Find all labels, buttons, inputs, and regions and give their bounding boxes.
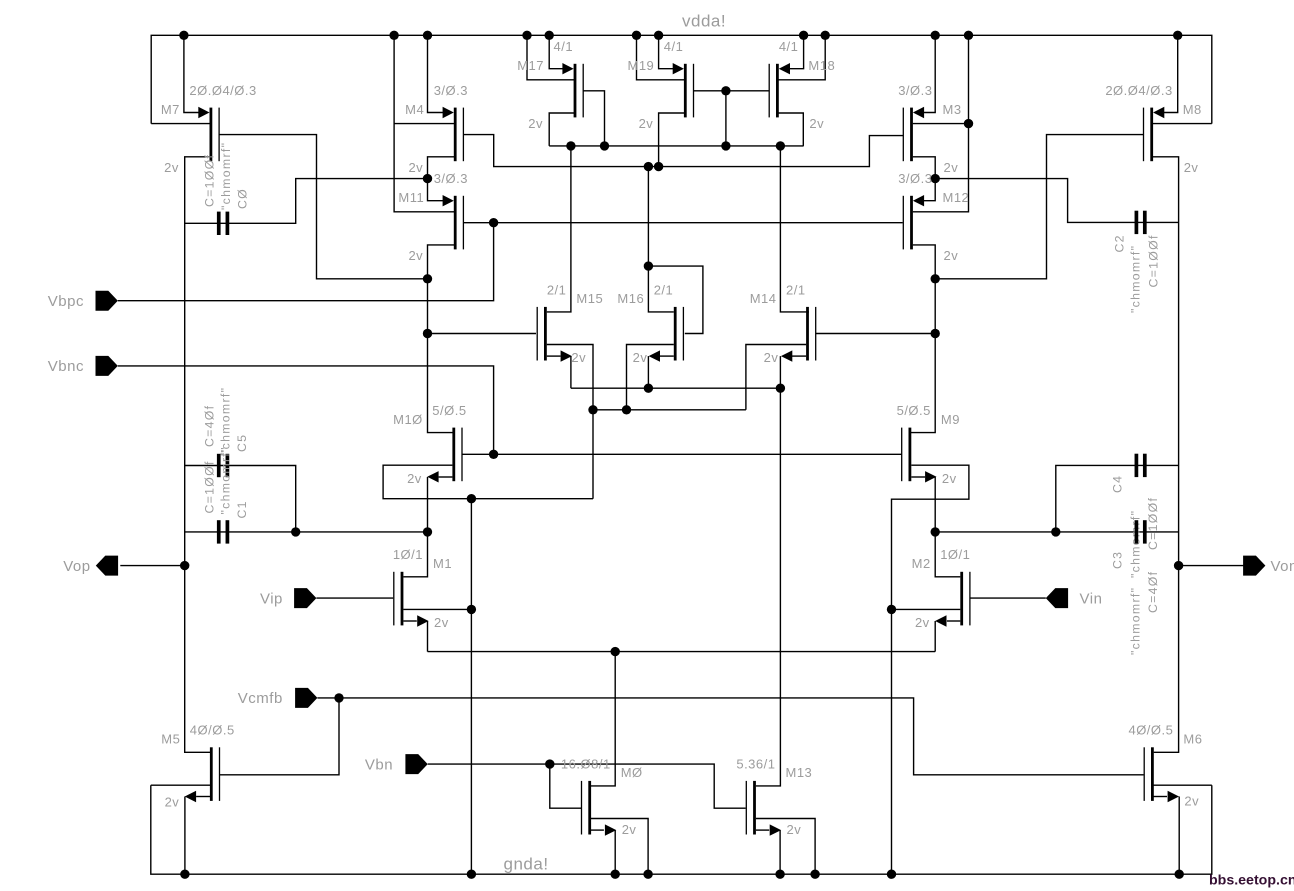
port Von	[1243, 556, 1294, 576]
svg-text:16.Ø8/1: 16.Ø8/1	[561, 756, 611, 771]
svg-text:4Ø/Ø.5: 4Ø/Ø.5	[190, 723, 235, 738]
wire M4 source stub	[428, 35, 444, 112]
junction	[654, 162, 663, 171]
svg-text:2v: 2v	[1184, 794, 1199, 809]
capacitor C0	[203, 142, 250, 235]
junction vdda rail	[632, 31, 641, 40]
wire Vbn to M13 gate	[428, 764, 746, 808]
svg-text:1Ø/1: 1Ø/1	[940, 547, 970, 562]
junction	[721, 86, 730, 95]
svg-text:3/Ø.3: 3/Ø.3	[898, 83, 932, 98]
svg-text:2v: 2v	[1184, 160, 1199, 175]
junction vdda rail	[423, 31, 432, 40]
wire Vbnc down	[118, 366, 494, 454]
junction vdda rail	[179, 31, 188, 40]
junction gnda rail	[1175, 870, 1184, 879]
wire M11 drain to M10 drain	[428, 245, 455, 433]
wire M15 bulk down	[547, 345, 593, 499]
junction	[489, 218, 498, 227]
port Vop	[63, 556, 118, 576]
transistor M17	[517, 39, 583, 131]
junction	[588, 405, 597, 414]
wire M5 source stub	[196, 796, 210, 798]
wire Vbn to M0 gate	[550, 764, 581, 808]
junction	[644, 162, 653, 171]
wire M2 drain	[935, 532, 960, 577]
junction	[1051, 527, 1060, 536]
junction mirror bus	[600, 141, 609, 150]
wire M10 source to M1 drain node	[427, 477, 429, 532]
junction	[931, 174, 940, 183]
svg-text:2v: 2v	[408, 248, 423, 263]
wire C0 to M4 drain node	[185, 179, 428, 224]
svg-text:Vbn: Vbn	[365, 756, 393, 773]
wire M14 bulk down	[746, 345, 806, 410]
svg-text:M17: M17	[517, 58, 544, 73]
wire C1 line	[185, 531, 428, 533]
svg-text:2v: 2v	[915, 615, 930, 630]
wire M7 vdda to bulk	[151, 123, 209, 125]
wire vdda to M11 bulk	[394, 35, 454, 212]
junction	[467, 494, 476, 503]
svg-text:MØ: MØ	[621, 765, 643, 780]
transistor M13	[736, 756, 812, 837]
svg-text:M14: M14	[750, 291, 777, 306]
junction	[622, 405, 631, 414]
svg-text:4/1: 4/1	[554, 39, 574, 54]
transistor M9	[897, 403, 960, 486]
svg-text:C5: C5	[235, 434, 249, 452]
svg-text:2/1: 2/1	[547, 282, 567, 297]
svg-text:C=1ØØf: C=1ØØf	[1147, 234, 1161, 287]
junction gnda rail	[810, 870, 819, 879]
junction	[423, 329, 432, 338]
port Vin	[1046, 588, 1103, 608]
wire M16 source stub	[660, 355, 674, 357]
transistor M12	[898, 171, 969, 263]
svg-text:2v: 2v	[944, 160, 959, 175]
svg-text:3/Ø.3: 3/Ø.3	[434, 171, 468, 186]
wire M4 bulk	[394, 123, 454, 125]
junction Vcmfb	[334, 693, 343, 702]
svg-text:2v: 2v	[528, 116, 543, 131]
wire M16 drain up to bias line	[648, 167, 673, 312]
wire M9 bulk to ground column	[892, 465, 969, 874]
junction mirror bus	[776, 141, 785, 150]
transistor M3	[898, 83, 961, 175]
wire C4 line	[1056, 465, 1179, 532]
svg-text:2Ø.Ø4/Ø.3: 2Ø.Ø4/Ø.3	[1105, 83, 1172, 98]
wire M18 bulk	[778, 35, 825, 80]
wire M7 gate to M11 drain node	[219, 135, 427, 279]
svg-text:2v: 2v	[942, 471, 957, 486]
svg-text:C=1ØØf: C=1ØØf	[1146, 497, 1160, 550]
svg-text:C2: C2	[1113, 234, 1127, 252]
svg-text:2v: 2v	[622, 822, 637, 837]
svg-text:M9: M9	[941, 412, 960, 427]
wire M0 source down	[614, 830, 616, 874]
junction vdda rail	[389, 31, 398, 40]
junction	[776, 384, 785, 393]
junction mirror bus	[566, 141, 575, 150]
junction	[931, 274, 940, 283]
wire bulk tie line	[593, 409, 746, 411]
svg-text:2v: 2v	[571, 350, 586, 365]
svg-text:"chmomrf": "chmomrf"	[219, 387, 233, 455]
transistor M0	[561, 756, 643, 837]
wire C5 line	[185, 466, 296, 532]
capacitor C5	[203, 387, 250, 477]
svg-text:2v: 2v	[408, 160, 423, 175]
junction	[489, 450, 498, 459]
wire M18 source stub	[789, 35, 803, 68]
svg-text:C=1ØØf: C=1ØØf	[203, 460, 217, 513]
wire Vbpc cascode gate line (M11-M12)	[463, 222, 902, 224]
svg-text:C1: C1	[235, 500, 249, 518]
wire Vbnc cascode gate line (M10-M9)	[462, 453, 901, 455]
capacitor C3	[1111, 520, 1161, 655]
wire M3 bulk	[913, 123, 969, 125]
junction vdda rail	[1173, 31, 1182, 40]
svg-text:4/1: 4/1	[664, 39, 684, 54]
svg-text:M8: M8	[1183, 102, 1202, 117]
transistor M10	[393, 403, 466, 486]
svg-text:CØ: CØ	[236, 188, 250, 209]
wire M19 source stub	[659, 35, 674, 68]
transistor M8	[1105, 83, 1201, 175]
wire M19 drain down	[659, 113, 685, 167]
svg-text:"chmomrf": "chmomrf"	[1129, 587, 1143, 655]
port Vbn	[365, 754, 428, 774]
svg-text:M5: M5	[161, 732, 180, 747]
wire M8 source stub	[1163, 35, 1178, 112]
transistor M6	[1128, 723, 1202, 809]
junction vdda rail	[821, 31, 830, 40]
svg-text:M6: M6	[1183, 732, 1202, 747]
svg-text:Vin: Vin	[1080, 590, 1103, 607]
wire Von column (M8 drain to M6 drain)	[1153, 157, 1179, 753]
transistor M19	[628, 39, 694, 131]
junction Vbn	[545, 759, 554, 768]
junction vdda rail	[931, 31, 940, 40]
svg-text:M19: M19	[628, 58, 655, 73]
svg-text:2v: 2v	[434, 615, 449, 630]
wire middle bus to M13 drain	[756, 356, 781, 786]
wire M5 source down	[184, 797, 186, 875]
svg-text:5.36/1: 5.36/1	[736, 756, 775, 771]
junction vdda rail	[799, 31, 808, 40]
wire M7 source stub	[184, 35, 199, 112]
svg-text:"chmomrf": "chmomrf"	[219, 142, 233, 210]
wire M15 source stub	[547, 355, 561, 357]
junction gnda rail	[887, 870, 896, 879]
svg-text:M15: M15	[576, 291, 603, 306]
junction gnda rail	[467, 870, 476, 879]
junction vdda rail	[964, 31, 973, 40]
wire M8 vdda to bulk	[1153, 123, 1212, 125]
junction	[423, 274, 432, 283]
wire M16 source down	[647, 356, 649, 388]
transistor M2	[912, 547, 971, 630]
svg-text:Vip: Vip	[260, 590, 283, 607]
port Vbpc	[48, 291, 118, 311]
transistor M15	[537, 282, 603, 365]
svg-text:3/Ø.3: 3/Ø.3	[898, 171, 932, 186]
wire M14 drain to bus	[780, 146, 809, 312]
wire tail to M0 drain	[591, 652, 616, 786]
wire M3 source stub	[920, 35, 936, 112]
junction vdda rail	[545, 31, 554, 40]
svg-text:2v: 2v	[407, 471, 422, 486]
svg-text:M7: M7	[161, 102, 180, 117]
svg-text:M16: M16	[617, 291, 644, 306]
svg-text:"chmomrf": "chmomrf"	[1129, 245, 1143, 313]
wire M19 bulk	[637, 35, 685, 80]
svg-text:2Ø.Ø4/Ø.3: 2Ø.Ø4/Ø.3	[189, 83, 256, 98]
wire left bulk ground column	[470, 499, 472, 875]
wire Vcmfb to M5 gate	[220, 698, 339, 775]
svg-text:Vop: Vop	[63, 558, 90, 575]
svg-text:bbs.eetop.cn: bbs.eetop.cn	[1209, 873, 1294, 889]
svg-text:M3: M3	[943, 102, 962, 117]
wire M5 bulk to rail end	[151, 784, 211, 786]
transistor M14	[750, 282, 816, 365]
svg-text:M4: M4	[405, 102, 424, 117]
svg-text:Vbnc: Vbnc	[48, 358, 84, 375]
wire M4 drain to M11 source	[428, 157, 455, 201]
svg-text:5/Ø.5: 5/Ø.5	[432, 403, 466, 418]
wire M13 bulk to rail	[756, 819, 815, 875]
wire gate tie to bus	[725, 91, 727, 146]
transistor M16	[617, 282, 683, 365]
wire middle source bus	[571, 387, 781, 389]
svg-text:2/1: 2/1	[654, 282, 674, 297]
svg-text:1Ø/1: 1Ø/1	[393, 547, 423, 562]
svg-text:C=4Øf: C=4Øf	[1146, 571, 1160, 613]
wire M3 drain node to C2	[935, 179, 1178, 223]
wire M15 drain to bus	[547, 146, 571, 312]
junction	[644, 261, 653, 270]
wire M10 source stub	[439, 476, 453, 478]
junction	[931, 527, 940, 536]
svg-text:Vbpc: Vbpc	[48, 293, 84, 310]
wire M6 bulk to rail end	[1153, 784, 1212, 786]
svg-text:C3: C3	[1111, 551, 1125, 569]
svg-text:gnda!: gnda!	[504, 855, 549, 874]
svg-text:2v: 2v	[944, 248, 959, 263]
transistor M1	[393, 547, 452, 630]
wire M0 source stub	[591, 829, 604, 831]
wire M1 drain	[403, 532, 427, 577]
junction gnda rail	[611, 870, 620, 879]
wire M1 source down	[427, 621, 429, 652]
capacitor C1	[203, 446, 250, 543]
wire M6 source stub	[1153, 796, 1167, 798]
transistor M18	[769, 39, 835, 131]
wire Vcmfb to M6 gate	[317, 698, 1143, 775]
wire M6 source down	[1178, 797, 1180, 875]
svg-text:M11: M11	[398, 190, 424, 205]
junction gnda rail	[180, 870, 189, 879]
capacitor C4	[1111, 454, 1161, 578]
svg-text:M1Ø: M1Ø	[393, 412, 423, 427]
wire M4 gate bias line to M3 gate	[463, 135, 903, 167]
transistor M11	[398, 171, 468, 263]
wire M10 bulk to ground column	[383, 465, 593, 499]
transistor M7	[161, 83, 257, 175]
wire M1 bulk	[403, 608, 471, 610]
junction gnda rail	[775, 870, 784, 879]
junction	[887, 605, 896, 614]
junction Von node	[1174, 561, 1183, 570]
wire M14 gate from M12 drain node	[816, 333, 936, 335]
svg-text:C=1ØØf: C=1ØØf	[203, 154, 217, 207]
wire M8 gate to M12 drain node	[935, 135, 1143, 279]
gnda! rail	[151, 785, 1212, 874]
svg-text:M18: M18	[808, 58, 835, 73]
wire vdda to M12 bulk	[913, 35, 969, 212]
svg-text:2v: 2v	[809, 116, 824, 131]
wire M2 source down	[934, 621, 936, 652]
wire M2 bulk	[892, 608, 961, 610]
svg-text:2v: 2v	[787, 822, 802, 837]
junction	[291, 527, 300, 536]
junction vdda rail	[654, 31, 663, 40]
wire Von	[1179, 565, 1244, 567]
wire tail line	[428, 651, 936, 653]
wire M2 source stub	[947, 620, 960, 622]
svg-text:Vcmfb: Vcmfb	[238, 690, 283, 707]
svg-text:2v: 2v	[165, 795, 180, 810]
port Vbnc	[48, 356, 118, 376]
junction	[423, 174, 432, 183]
svg-text:2v: 2v	[633, 350, 648, 365]
svg-text:M13: M13	[786, 765, 813, 780]
wire Vip to M1 gate	[316, 597, 393, 599]
svg-text:2/1: 2/1	[786, 282, 806, 297]
wire M18 drain to bus	[778, 113, 803, 146]
junction	[964, 119, 973, 128]
vdda! rail	[151, 35, 1212, 123]
svg-text:2v: 2v	[639, 116, 654, 131]
wire M1 source stub	[403, 620, 416, 622]
junction	[467, 605, 476, 614]
wire M12 drain to M9 drain	[911, 245, 936, 433]
svg-text:M12: M12	[943, 190, 970, 205]
svg-text:Von: Von	[1271, 558, 1294, 575]
svg-text:C4: C4	[1111, 475, 1125, 493]
wire M16 bulk down	[627, 345, 674, 410]
wire M9 source to M2 drain node	[934, 477, 936, 532]
svg-text:"chmomrf": "chmomrf"	[1129, 510, 1143, 578]
svg-text:C=4Øf: C=4Øf	[203, 405, 217, 447]
wire M9 source stub	[911, 476, 925, 478]
port Vip	[260, 588, 316, 608]
svg-text:4Ø/Ø.5: 4Ø/Ø.5	[1128, 723, 1173, 738]
wire M17 bulk	[527, 35, 574, 80]
svg-text:2v: 2v	[164, 160, 179, 175]
wire M13 source down	[779, 830, 781, 874]
wire M16 diode link to gate	[648, 266, 703, 333]
junction tail node	[611, 647, 620, 656]
wire M15 gate from M11 drain node	[428, 333, 537, 335]
svg-text:5/Ø.5: 5/Ø.5	[897, 403, 931, 418]
wire C3 line	[935, 531, 1178, 533]
junction mirror bus	[721, 141, 730, 150]
wire Vbpc to cascode gates	[118, 223, 494, 301]
svg-text:M2: M2	[912, 556, 931, 571]
junction vdda rail	[522, 31, 531, 40]
wire mirror drain bus	[549, 145, 803, 147]
svg-text:vdda!: vdda!	[682, 12, 726, 31]
svg-text:M1: M1	[433, 556, 452, 571]
wire Vop	[120, 565, 184, 567]
junction Vop node	[180, 561, 189, 570]
wire M3 drain to M12 source	[913, 157, 935, 201]
wire M14 source stub	[792, 355, 806, 357]
wire Vop column (M7 drain to M5 drain)	[185, 157, 210, 753]
transistor M4	[405, 83, 468, 175]
svg-text:4/1: 4/1	[779, 39, 799, 54]
svg-text:2v: 2v	[764, 350, 779, 365]
port Vcmfb	[238, 688, 318, 708]
wire M19-M18 gate tie	[694, 90, 769, 92]
wire M13 source stub	[756, 829, 769, 831]
transistor M5	[161, 723, 234, 810]
junction gnda rail	[643, 870, 652, 879]
junction	[931, 329, 940, 338]
wire M15 source down	[570, 356, 572, 388]
wire Vin to M2 gate	[970, 597, 1045, 599]
wire M17 gate down to bus	[583, 91, 604, 146]
svg-text:"chmomrf": "chmomrf"	[219, 446, 233, 514]
capacitor C2	[1113, 211, 1161, 313]
svg-text:3/Ø.3: 3/Ø.3	[434, 83, 468, 98]
wire M17 drain to bus	[549, 113, 574, 146]
junction	[423, 527, 432, 536]
wire M0 bulk to rail	[591, 819, 649, 875]
wire M17 source stub	[549, 35, 563, 68]
junction	[644, 384, 653, 393]
